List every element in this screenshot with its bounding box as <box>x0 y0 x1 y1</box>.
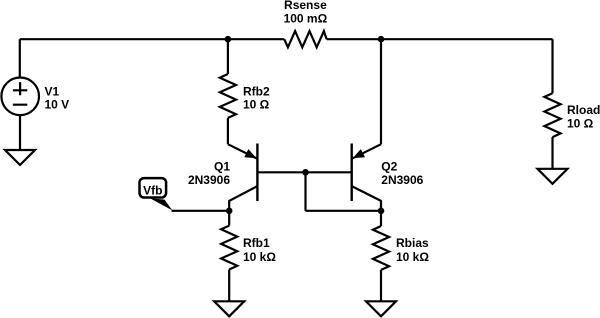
junction dot Vfb node <box>226 208 233 215</box>
svg-text:10 V: 10 V <box>45 98 70 112</box>
svg-text:Rfb2: Rfb2 <box>243 84 270 98</box>
junction dot base node <box>302 169 309 176</box>
svg-text:Vfb: Vfb <box>143 183 162 197</box>
junction dot rail-Rfb2 <box>225 36 232 43</box>
ground (Rbias) <box>366 301 396 316</box>
wire Rfb2 top <box>227 39 229 74</box>
wire Vfb to Q1 collector <box>172 210 230 212</box>
node Vfb pointer wedge <box>150 198 172 210</box>
svg-text:Rsense: Rsense <box>284 0 327 12</box>
wire Rload top <box>551 39 553 93</box>
resistor Rsense <box>284 31 326 47</box>
node Vfb label box <box>140 178 167 197</box>
ground (V1) <box>5 150 35 165</box>
wire bottom cross to Rbias <box>306 210 382 212</box>
svg-text:2N3906: 2N3906 <box>381 173 423 187</box>
wire base junction down <box>304 172 306 211</box>
svg-text:Q2: Q2 <box>381 160 397 174</box>
svg-text:Q1: Q1 <box>214 160 230 174</box>
voltage source V1 <box>1 78 39 116</box>
svg-text:10 kΩ: 10 kΩ <box>396 250 429 264</box>
junction dot Rbias node <box>378 208 385 215</box>
wire Rfb1 to ground <box>228 270 230 302</box>
wire V1 bottom <box>19 115 21 150</box>
wire top rail right segment <box>327 38 553 40</box>
junction dot rail-Q2 <box>378 36 385 43</box>
svg-text:V1: V1 <box>45 84 60 98</box>
wire Q2 emitter to rail <box>380 39 382 144</box>
transistor Q2 emitter <box>352 144 381 159</box>
transistor Q1 bar <box>256 144 258 202</box>
wire V1 top <box>19 39 21 77</box>
svg-text:2N3906: 2N3906 <box>188 173 230 187</box>
wire top rail left segment <box>20 38 285 40</box>
svg-text:100 mΩ: 100 mΩ <box>284 11 328 25</box>
resistor Rbias <box>373 226 389 270</box>
resistor Rload <box>544 93 560 137</box>
ground (Rfb1) <box>214 301 244 316</box>
svg-text:10 Ω: 10 Ω <box>567 116 594 130</box>
svg-text:Rbias: Rbias <box>396 236 429 250</box>
transistor Q2 collector <box>352 186 381 211</box>
wire Rbias to ground <box>380 270 382 301</box>
transistor Q1 emitter <box>228 144 258 159</box>
resistor Rfb2 <box>220 74 236 118</box>
transistor Q2 bar <box>351 144 353 202</box>
ground (Rload) <box>538 169 568 184</box>
svg-text:Rload: Rload <box>567 103 600 117</box>
resistor Rfb1 <box>221 226 237 270</box>
wire Rload to ground <box>551 137 553 169</box>
transistor Q1 emitter arrowhead <box>244 149 256 158</box>
svg-text:10 kΩ: 10 kΩ <box>243 250 276 264</box>
wire Rfb2 to Q1 emitter <box>227 118 229 144</box>
svg-text:10 Ω: 10 Ω <box>243 98 270 112</box>
transistor Q1 base wire <box>257 171 351 173</box>
svg-text:Rfb1: Rfb1 <box>243 236 270 250</box>
transistor Q2 emitter arrowhead <box>353 149 365 158</box>
wire Rbias top <box>380 211 382 226</box>
transistor Q1 collector <box>229 186 257 226</box>
